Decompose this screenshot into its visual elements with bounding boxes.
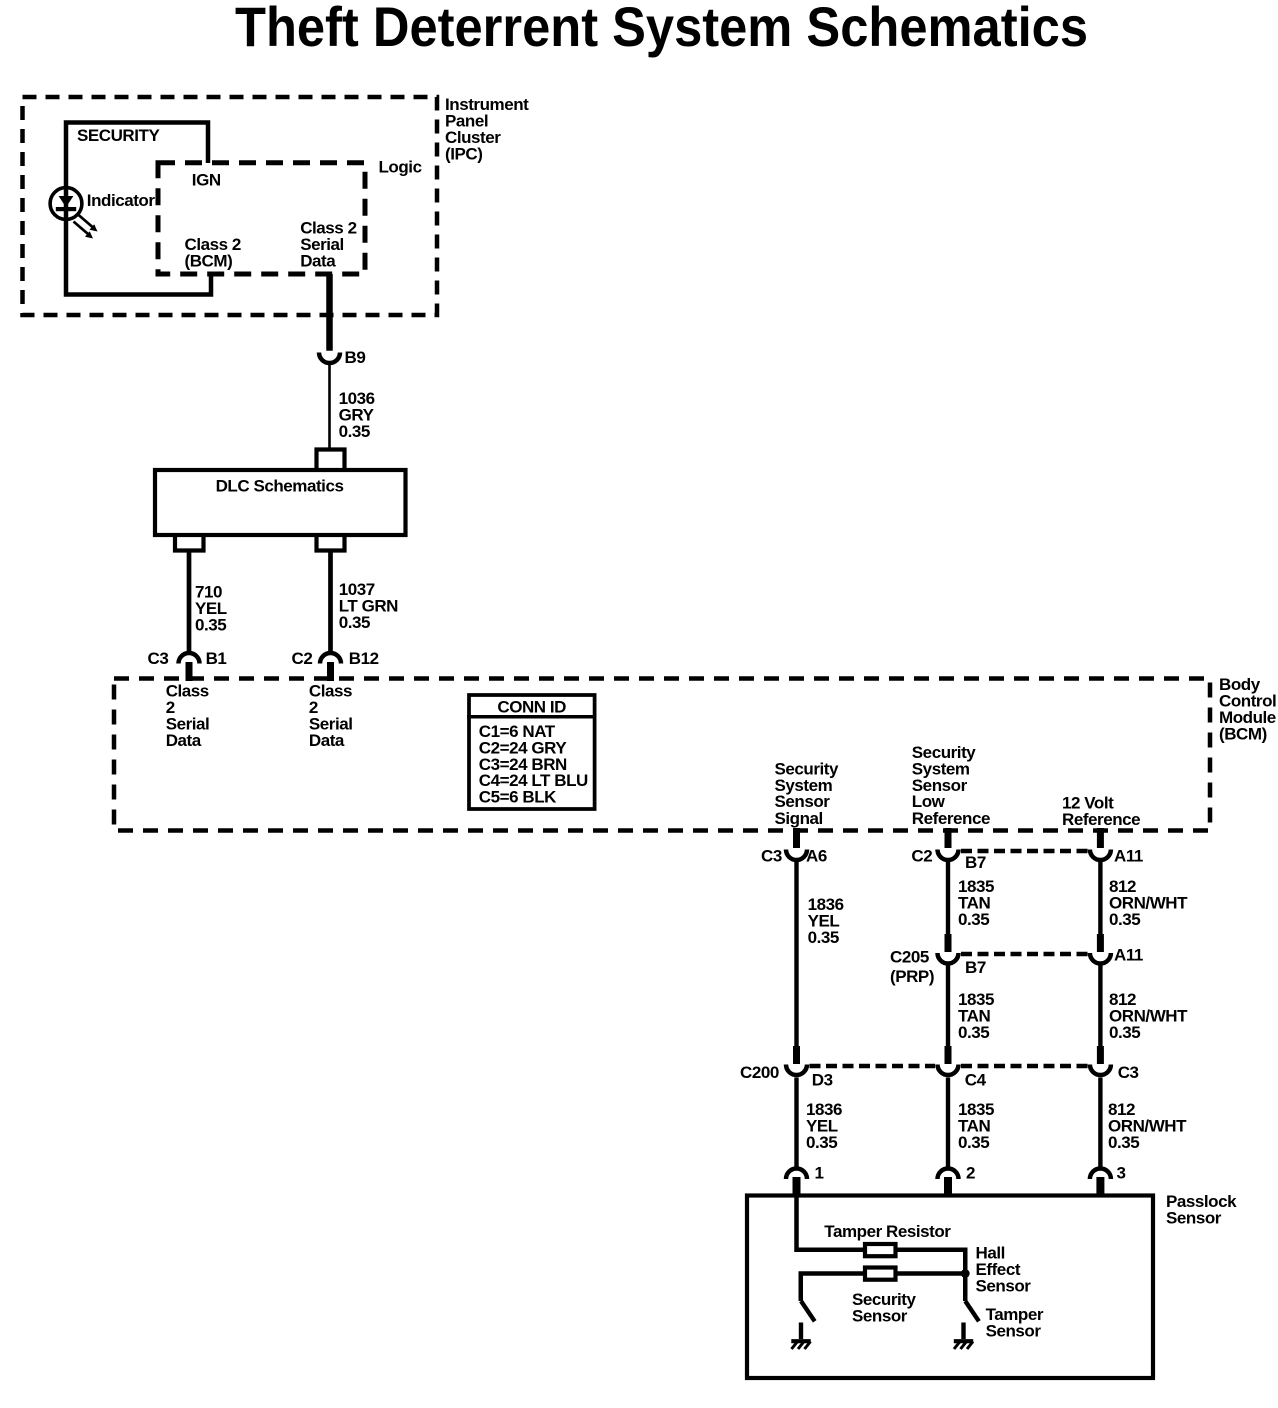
- svg-text:A11: A11: [1114, 847, 1143, 866]
- connector C2/B7 out of BCM: [945, 828, 952, 848]
- svg-text:B9: B9: [345, 348, 366, 367]
- wire resistor to junction: [897, 1271, 965, 1276]
- wire 1036 GRY: [328, 365, 331, 450]
- wire: IPC to B9: [326, 274, 333, 351]
- wire 710 YEL: [187, 553, 192, 652]
- ground (security sensor): [791, 1323, 810, 1350]
- svg-text:1: 1: [815, 1163, 824, 1182]
- svg-text:(BCM): (BCM): [185, 251, 233, 270]
- resistor R tamper: [865, 1244, 896, 1256]
- svg-text:Indicator: Indicator: [87, 191, 156, 210]
- svg-text:0.35: 0.35: [958, 1133, 989, 1152]
- BCM module box (dashed): [114, 679, 1210, 831]
- svg-text:Data: Data: [166, 731, 202, 750]
- svg-text:(PRP): (PRP): [890, 967, 934, 986]
- connector C200 C4: [945, 1046, 952, 1064]
- svg-text:C2: C2: [292, 649, 313, 668]
- svg-text:Sensor: Sensor: [1166, 1209, 1222, 1228]
- svg-text:C3: C3: [761, 847, 782, 866]
- switch tamper sensor: [965, 1301, 979, 1321]
- connector C3/A6 out of BCM: [793, 828, 800, 848]
- connector C2/B12 into BCM: [320, 653, 341, 664]
- svg-text:A6: A6: [806, 847, 827, 866]
- connector C205 A11: [1097, 934, 1104, 952]
- ground (tamper sensor): [954, 1323, 973, 1350]
- svg-text:SECURITY: SECURITY: [77, 126, 160, 145]
- dashed wire C2 to A11: [961, 849, 1088, 854]
- svg-text:B7: B7: [965, 853, 986, 872]
- DLC Schematics box: [155, 470, 406, 535]
- wire 1835 TAN (C200 to pin 2): [946, 1078, 950, 1167]
- svg-text:DLC Schematics: DLC Schematics: [216, 476, 344, 495]
- svg-text:B12: B12: [349, 649, 379, 668]
- svg-text:D3: D3: [812, 1071, 833, 1090]
- wire tamper resistor to hall node: [897, 1250, 965, 1301]
- connector pin 1 into Passlock Sensor: [786, 1169, 807, 1180]
- svg-text:0.35: 0.35: [806, 1133, 837, 1152]
- svg-text:Sensor: Sensor: [852, 1306, 908, 1325]
- connector C205 B7: [945, 934, 952, 952]
- dashed wire C200 C4 to C3: [961, 1064, 1088, 1069]
- connector pin 3 into Passlock Sensor: [1090, 1169, 1111, 1180]
- switch security sensor: [801, 1301, 815, 1321]
- svg-text:0.35: 0.35: [958, 1023, 989, 1042]
- svg-text:C205: C205: [890, 948, 929, 967]
- svg-text:CONN ID: CONN ID: [497, 698, 566, 717]
- wire 1037 LT GRN: [328, 553, 333, 652]
- svg-text:0.35: 0.35: [339, 422, 370, 441]
- svg-text:C4: C4: [965, 1071, 987, 1090]
- wire 812 ORN/WHT (BCM to C205 row): [1098, 862, 1102, 935]
- connector staple out of DLC box right: [317, 535, 345, 551]
- wire 1836 YEL (C200 to pin 1): [794, 1078, 798, 1167]
- connector staple out of DLC box left: [175, 535, 204, 551]
- dashed wire C200 D3 to C4: [810, 1064, 936, 1069]
- connector B9: [319, 353, 340, 364]
- svg-text:Tamper Resistor: Tamper Resistor: [824, 1222, 951, 1241]
- svg-text:Logic: Logic: [379, 158, 422, 177]
- svg-text:3: 3: [1117, 1163, 1126, 1182]
- dashed wire C205 B7 to A11: [961, 952, 1088, 957]
- svg-text:C3: C3: [148, 649, 169, 668]
- svg-text:0.35: 0.35: [1108, 1133, 1139, 1152]
- svg-text:Sensor: Sensor: [986, 1322, 1042, 1341]
- IPC module box (dashed): [23, 97, 438, 315]
- svg-text:(IPC): (IPC): [445, 145, 482, 164]
- svg-text:0.35: 0.35: [195, 616, 226, 635]
- svg-text:0.35: 0.35: [958, 910, 989, 929]
- wire 812 ORN/WHT (C200 to pin 3): [1098, 1078, 1102, 1167]
- connector A11 out of BCM: [1097, 828, 1104, 848]
- svg-text:B1: B1: [206, 649, 227, 668]
- svg-text:C3: C3: [1118, 1063, 1139, 1082]
- svg-text:0.35: 0.35: [1109, 910, 1140, 929]
- connector pin 2 into Passlock Sensor: [938, 1169, 959, 1180]
- svg-text:A11: A11: [1114, 946, 1143, 965]
- wire 812 ORN/WHT (C205 to C200): [1098, 966, 1102, 1048]
- svg-text:IGN: IGN: [192, 170, 221, 189]
- svg-text:C5=6 BLK: C5=6 BLK: [479, 787, 557, 806]
- connector staple into DLC box: [317, 450, 345, 471]
- CONN ID table: [467, 695, 596, 809]
- wire: SECURITY indicator loop: [66, 123, 211, 295]
- svg-text:2: 2: [966, 1163, 975, 1182]
- svg-text:C200: C200: [740, 1063, 779, 1082]
- svg-text:0.35: 0.35: [1109, 1023, 1140, 1042]
- wire 1835 TAN (BCM to C205): [946, 862, 950, 935]
- svg-text:B7: B7: [965, 958, 986, 977]
- Passlock Sensor box: [747, 1196, 1153, 1379]
- wire 1836 YEL (BCM to C200): [794, 862, 798, 1048]
- connector C200 C3: [1097, 1046, 1104, 1064]
- svg-text:Reference: Reference: [912, 809, 990, 828]
- svg-text:C2: C2: [911, 847, 932, 866]
- svg-text:0.35: 0.35: [808, 928, 839, 947]
- wire security sensor branch: [801, 1274, 864, 1302]
- connector C200 D3: [793, 1046, 800, 1064]
- LED indicator lamp: [50, 188, 97, 239]
- svg-text:Sensor: Sensor: [976, 1276, 1032, 1295]
- IPC logic box (dashed): [158, 163, 365, 274]
- resistor security sensor: [865, 1268, 896, 1280]
- svg-text:(BCM): (BCM): [1219, 725, 1267, 744]
- svg-text:0.35: 0.35: [339, 613, 370, 632]
- svg-text:Theft Deterrent System Schemat: Theft Deterrent System Schematics: [235, 0, 1088, 58]
- connector C3/B1 into BCM: [179, 653, 200, 664]
- svg-text:Data: Data: [309, 731, 345, 750]
- svg-text:Signal: Signal: [775, 809, 823, 828]
- svg-text:Data: Data: [300, 251, 336, 270]
- svg-text:Reference: Reference: [1062, 810, 1140, 829]
- wire 1835 TAN (C205 to C200): [946, 966, 950, 1048]
- junction node: [961, 1269, 970, 1278]
- wire pin1 to tamper resistor: [797, 1196, 865, 1250]
